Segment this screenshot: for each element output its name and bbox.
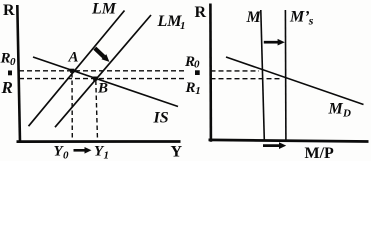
svg-text:A: A (68, 50, 79, 66)
svg-text:M’: M’ (289, 9, 310, 26)
svg-text:s: s (308, 13, 314, 27)
svg-text:R: R (195, 4, 207, 21)
svg-text:Y: Y (171, 144, 183, 161)
svg-text:LM: LM (91, 1, 117, 18)
svg-text:M: M (328, 101, 344, 118)
svg-text:R: R (0, 51, 11, 67)
svg-text:1: 1 (180, 20, 186, 32)
svg-text:IS: IS (153, 110, 169, 127)
svg-text:LM: LM (157, 13, 183, 30)
svg-text:M: M (246, 9, 262, 26)
svg-text:R: R (185, 80, 196, 96)
svg-text:M/P: M/P (305, 145, 335, 161)
svg-text:R: R (3, 2, 15, 19)
svg-text:D: D (342, 108, 351, 120)
svg-text:R: R (1, 78, 13, 97)
svg-text:1: 1 (195, 85, 201, 97)
svg-text:0: 0 (63, 150, 69, 162)
svg-text:B: B (97, 81, 108, 97)
svg-text:1: 1 (104, 150, 110, 162)
svg-text:0: 0 (194, 59, 200, 71)
svg-text:0: 0 (10, 56, 16, 68)
